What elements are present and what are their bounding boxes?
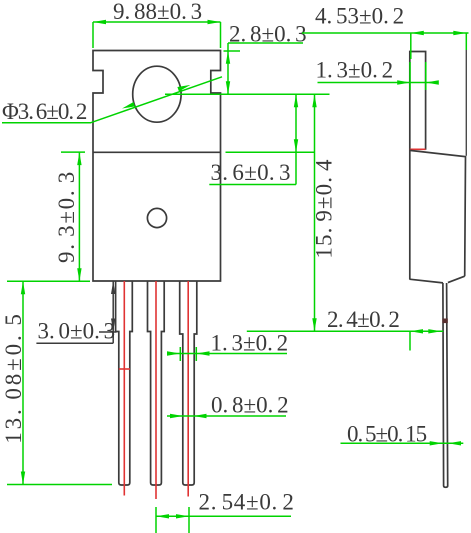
svg-text:9. 88±0. 3: 9. 88±0. 3: [113, 0, 202, 24]
hole center line: [165, 93, 330, 95]
svg-text:0. 8±0. 2: 0. 8±0. 2: [211, 393, 289, 418]
mounting hole: [133, 66, 181, 122]
dimension 9.88±0.3: [93, 0, 221, 48]
svg-text:4. 53±0. 2: 4. 53±0. 2: [315, 4, 404, 29]
dimension 15.9±0.4: [226, 94, 337, 331]
dimension 2.54±0.2 (lead pitch): [156, 490, 295, 533]
dimension 13.08±0.5: [1, 281, 112, 484]
svg-text:1. 3±0. 2: 1. 3±0. 2: [211, 331, 289, 356]
tab/body separator line: [93, 151, 221, 153]
side view lead joint tick: [442, 319, 447, 324]
side view lead: [443, 283, 448, 487]
body hole: [147, 208, 166, 227]
svg-text:2. 8±0. 3: 2. 8±0. 3: [229, 22, 307, 47]
dimension 0.8±0.2 (lead 3 tip width): [167, 393, 289, 419]
dimension 2.4±0.2 with lead standoff line: [247, 307, 443, 351]
lead 2 red centerline: [155, 281, 157, 499]
dimension Φ3.6±0.2 leader: [2, 77, 222, 124]
lead 3 red centerline: [187, 281, 189, 497]
dimension 1.3±0.2 (lead 3 shoulder width): [167, 331, 288, 362]
svg-text:2. 4±0. 2: 2. 4±0. 2: [327, 307, 399, 332]
side view body: [409, 150, 465, 283]
svg-text:2. 54±0. 2: 2. 54±0. 2: [199, 490, 295, 515]
svg-text:1. 3±0. 2: 1. 3±0. 2: [316, 58, 394, 83]
side view tab-body red junction line: [410, 148, 426, 150]
lead 1 red tick: [119, 368, 130, 370]
side view tab: [410, 52, 426, 280]
svg-text:15. 9±0. 4: 15. 9±0. 4: [312, 158, 337, 258]
lead 1 outline: [116, 281, 133, 485]
svg-text:0. 5±0. 15: 0. 5±0. 15: [347, 422, 427, 447]
svg-text:13. 08±0. 5: 13. 08±0. 5: [1, 311, 26, 444]
lead 1 red centerline: [123, 281, 125, 496]
lead 2 outline: [148, 281, 165, 485]
extension line (black) from 4.53 dim to body corner: [465, 50, 467, 156]
svg-text:3. 0±0. 3: 3. 0±0. 3: [38, 319, 116, 344]
dimension 0.5±0.15 (lead thickness): [341, 422, 464, 447]
dimension 3.0±0.3 (black): [36, 281, 116, 344]
svg-text:9. 3±0. 3: 9. 3±0. 3: [54, 170, 79, 263]
dimension 1.3±0.2 (tab thickness): [316, 58, 439, 91]
front view package outline (tab with notches + body): [93, 51, 221, 282]
dimension 4.53±0.2: [302, 4, 469, 60]
svg-text:Φ3. 6±0. 2: Φ3. 6±0. 2: [2, 99, 87, 124]
dimension 9.3±0.3: [54, 152, 85, 281]
dimension 3.6±0.3: [209, 94, 298, 185]
lead 3 outline: [180, 281, 197, 485]
svg-text:3. 6±0. 3: 3. 6±0. 3: [211, 160, 291, 185]
dimension 2.8±0.3: [224, 22, 307, 95]
